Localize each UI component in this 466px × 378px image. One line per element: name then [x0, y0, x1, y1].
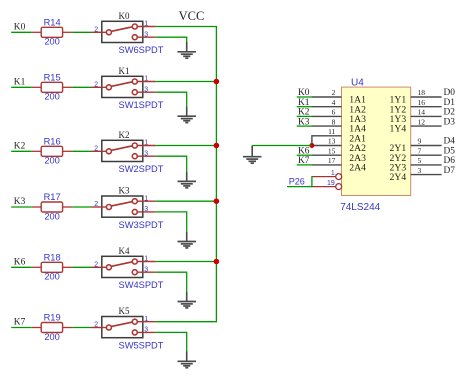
- svg-text:4: 4: [332, 98, 336, 107]
- resistor R19: [32, 313, 73, 342]
- svg-text:K0: K0: [298, 88, 310, 98]
- svg-text:K3: K3: [298, 117, 310, 127]
- svg-text:D7: D7: [444, 166, 456, 176]
- node K0 at pin 2: [297, 88, 313, 98]
- svg-text:200: 200: [44, 156, 60, 166]
- wire pin1 to VCC rail: [156, 261, 217, 263]
- svg-text:K2: K2: [298, 108, 310, 118]
- resistor R17: [32, 192, 73, 221]
- wire: [11, 31, 32, 33]
- svg-text:1: 1: [144, 21, 148, 28]
- resistor R15: [32, 72, 73, 101]
- svg-text:K2: K2: [14, 142, 26, 152]
- svg-text:1Y4: 1Y4: [390, 124, 407, 135]
- svg-text:SW5SPDT: SW5SPDT: [119, 340, 164, 350]
- pin 19 (2OE, inverted): [312, 180, 342, 190]
- ground (IC enable): [243, 146, 262, 164]
- svg-text:2Y4: 2Y4: [390, 172, 407, 183]
- svg-text:2: 2: [94, 81, 98, 88]
- pin 3 (2Y4) node D7: [390, 166, 456, 183]
- node K6 at pin 15: [297, 146, 313, 156]
- pin 7 (2Y2) node D5: [390, 146, 456, 163]
- pin 15 (2A3): [312, 146, 366, 163]
- svg-text:17: 17: [328, 156, 336, 165]
- pin 14 (1Y3) node D2: [390, 108, 456, 125]
- wire pin3 to ground: [156, 211, 187, 213]
- switch SW5SPDT (K5): [92, 306, 164, 350]
- svg-text:D2: D2: [444, 108, 456, 118]
- wire VCC vertical rail: [215, 27, 217, 322]
- junction: [214, 79, 220, 85]
- svg-text:3: 3: [144, 327, 148, 334]
- pin 18 (1Y1) node D0: [390, 88, 456, 105]
- svg-text:19: 19: [327, 180, 335, 187]
- svg-text:R17: R17: [44, 192, 61, 202]
- svg-text:1: 1: [144, 195, 148, 202]
- node K2 at pin 6: [297, 108, 313, 118]
- wire pin11 to pin13 junction: [311, 135, 313, 145]
- svg-text:R18: R18: [44, 252, 61, 262]
- svg-text:14: 14: [418, 108, 426, 117]
- wire pin1 to VCC rail: [156, 81, 217, 83]
- svg-text:16: 16: [418, 98, 426, 107]
- svg-text:SW2SPDT: SW2SPDT: [119, 164, 164, 174]
- wire: [11, 206, 32, 208]
- ground: [178, 106, 197, 122]
- svg-text:VCC: VCC: [179, 9, 205, 23]
- pin 6 (1A3): [312, 108, 366, 125]
- pin 8 (1A4): [312, 117, 366, 134]
- wire pin3 to ground: [156, 271, 187, 273]
- ground: [178, 172, 197, 188]
- svg-text:2: 2: [94, 26, 98, 33]
- svg-text:D1: D1: [444, 98, 456, 108]
- wire: [11, 327, 32, 329]
- svg-text:3: 3: [144, 86, 148, 93]
- pin 1 (1OE, inverted): [312, 170, 342, 180]
- svg-text:SW3SPDT: SW3SPDT: [119, 220, 164, 230]
- svg-text:K1: K1: [119, 66, 130, 76]
- svg-text:K5: K5: [119, 306, 130, 316]
- svg-text:200: 200: [44, 272, 60, 282]
- node K7 at pin 17: [297, 156, 313, 166]
- wire: [72, 327, 91, 329]
- junction: [214, 259, 220, 265]
- svg-text:K0: K0: [14, 23, 26, 33]
- svg-text:D4: D4: [444, 137, 456, 147]
- svg-text:1: 1: [144, 316, 148, 323]
- svg-text:SW4SPDT: SW4SPDT: [119, 280, 164, 290]
- svg-text:K6: K6: [14, 258, 26, 268]
- svg-text:K6: K6: [298, 146, 310, 156]
- resistor R14: [32, 17, 73, 46]
- svg-text:2: 2: [94, 261, 98, 268]
- svg-text:13: 13: [328, 137, 336, 146]
- svg-text:200: 200: [44, 332, 60, 342]
- svg-text:K1: K1: [14, 78, 26, 88]
- svg-text:6: 6: [332, 108, 336, 117]
- svg-text:K3: K3: [14, 197, 26, 207]
- svg-text:1: 1: [331, 170, 335, 177]
- wire pin3 to ground: [156, 155, 187, 157]
- svg-text:1: 1: [144, 76, 148, 83]
- svg-text:1: 1: [144, 256, 148, 263]
- switch SW4SPDT (K4): [92, 246, 164, 290]
- svg-text:R16: R16: [44, 136, 61, 146]
- wire joining pins 1 and 19: [311, 176, 313, 187]
- svg-text:K1: K1: [298, 98, 310, 108]
- wire: [72, 266, 91, 268]
- svg-text:R19: R19: [44, 313, 61, 323]
- op IC U4 74LS244 body: [342, 87, 411, 195]
- svg-text:K2: K2: [119, 130, 130, 140]
- pin 12 (1Y4) node D3: [390, 117, 456, 134]
- ground: [178, 232, 197, 248]
- junction: [214, 198, 220, 204]
- svg-text:15: 15: [328, 146, 336, 155]
- svg-text:3: 3: [144, 31, 148, 38]
- pin 11 (2A1): [312, 127, 366, 144]
- svg-text:1: 1: [144, 140, 148, 147]
- node P26: [287, 177, 313, 187]
- svg-text:SW1SPDT: SW1SPDT: [119, 100, 164, 110]
- resistor R18: [32, 252, 73, 281]
- svg-text:9: 9: [418, 137, 422, 146]
- junction: [309, 143, 314, 148]
- svg-text:3: 3: [144, 206, 148, 213]
- svg-text:R14: R14: [44, 17, 61, 27]
- svg-text:74LS244: 74LS244: [340, 202, 380, 213]
- svg-text:200: 200: [44, 211, 60, 221]
- svg-text:18: 18: [418, 88, 426, 97]
- svg-text:K7: K7: [14, 318, 26, 328]
- svg-text:SW6SPDT: SW6SPDT: [119, 45, 164, 55]
- node K3 at pin 8: [297, 117, 313, 127]
- node K1 at pin 4: [297, 98, 313, 108]
- wire: [72, 150, 91, 152]
- wire: [72, 31, 91, 33]
- wire: [11, 266, 32, 268]
- svg-text:2: 2: [94, 145, 98, 152]
- wire: [72, 86, 91, 88]
- wire pin1 to VCC rail: [156, 200, 217, 202]
- switch SW3SPDT (K3): [92, 186, 164, 230]
- svg-text:2A4: 2A4: [349, 163, 366, 174]
- svg-text:7: 7: [418, 146, 422, 155]
- resistor R16: [32, 136, 73, 165]
- wire pin3 to ground: [156, 36, 187, 38]
- switch SW6SPDT (K0): [92, 11, 164, 55]
- svg-text:K4: K4: [119, 246, 130, 256]
- svg-text:K0: K0: [119, 11, 130, 21]
- pin 13 (2A2): [312, 137, 366, 154]
- svg-text:3: 3: [144, 150, 148, 157]
- svg-text:P26: P26: [289, 177, 305, 187]
- svg-text:2: 2: [332, 88, 336, 97]
- pin 5 (2Y3) node D6: [390, 156, 456, 173]
- pin 2 (1A1): [312, 88, 366, 105]
- switch SW1SPDT (K1): [92, 66, 164, 110]
- pin 16 (1Y2) node D1: [390, 98, 456, 115]
- svg-text:K7: K7: [298, 156, 310, 166]
- wire ground to pin13: [252, 145, 312, 147]
- ground: [178, 292, 197, 308]
- pin 9 (2Y1) node D4: [390, 137, 456, 154]
- svg-text:D5: D5: [444, 146, 456, 156]
- wire: [72, 206, 91, 208]
- svg-text:8: 8: [332, 117, 336, 126]
- svg-text:5: 5: [418, 156, 422, 165]
- svg-text:D0: D0: [444, 88, 456, 98]
- svg-text:11: 11: [328, 127, 335, 136]
- switch SW2SPDT (K2): [92, 130, 164, 174]
- junction: [214, 143, 220, 149]
- svg-text:2: 2: [94, 201, 98, 208]
- svg-text:3: 3: [144, 266, 148, 273]
- wire pin3 to ground: [156, 91, 187, 93]
- wire: [11, 150, 32, 152]
- ground: [178, 352, 197, 368]
- svg-text:200: 200: [44, 92, 60, 102]
- wire pin1 to VCC rail: [156, 26, 217, 28]
- wire pin3 to ground: [156, 331, 187, 333]
- svg-text:3: 3: [418, 166, 422, 175]
- pin 17 (2A4): [312, 156, 366, 173]
- ground: [178, 42, 197, 58]
- svg-text:K3: K3: [119, 186, 130, 196]
- wire pin1 to VCC rail: [156, 321, 217, 323]
- svg-text:R15: R15: [44, 72, 61, 82]
- svg-text:2: 2: [94, 322, 98, 329]
- svg-text:12: 12: [418, 117, 426, 126]
- wire pin1 to VCC rail: [156, 145, 217, 147]
- wire: [11, 86, 32, 88]
- pin 4 (1A2): [312, 98, 366, 115]
- svg-text:D3: D3: [444, 117, 456, 127]
- svg-text:200: 200: [44, 37, 60, 47]
- svg-text:D6: D6: [444, 156, 456, 166]
- svg-text:U4: U4: [351, 78, 364, 89]
